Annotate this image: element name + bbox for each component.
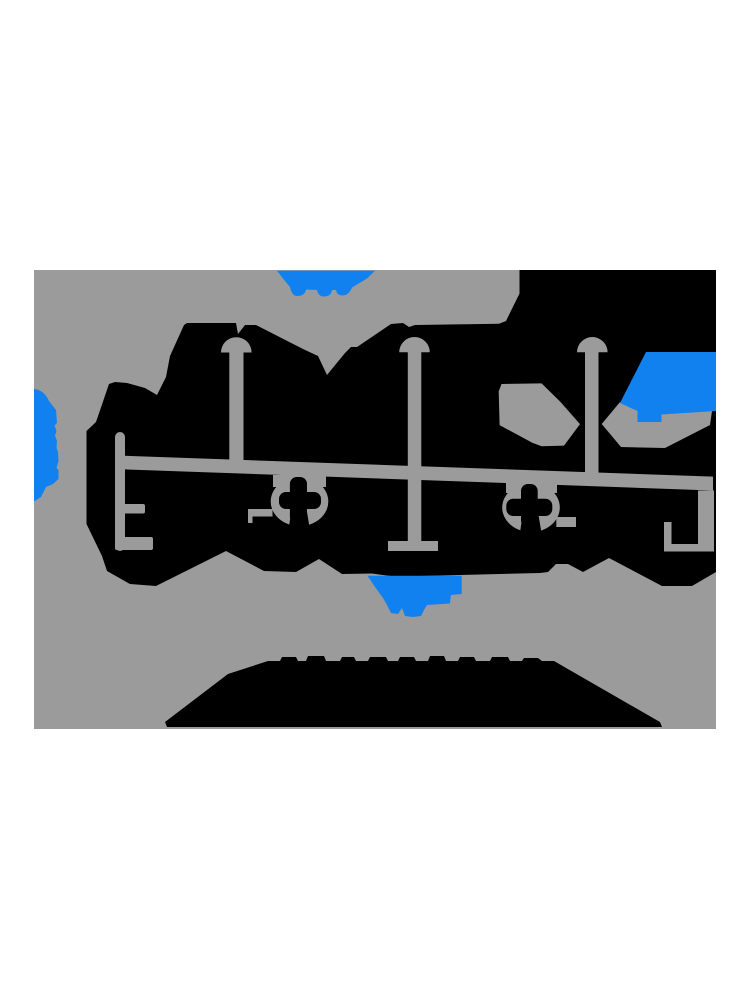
screw boss 2: black cruciform core (506, 499, 552, 516)
screw boss 1: left stub (248, 509, 273, 523)
blue dimension blob "3" left (34, 389, 59, 502)
left bar middle stub (122, 504, 145, 514)
screw boss 2: gray ring body (502, 483, 560, 532)
screw boss 1: gray ring body (271, 477, 329, 526)
mushroom pin 1 (cap + stem) (221, 337, 252, 461)
blue dimension blob "110" bottom (368, 576, 462, 617)
gray panel (34, 270, 716, 729)
screw boss 2: bottom opening (520, 512, 543, 540)
blue dimension blob right (620, 352, 716, 422)
screw boss 1: black cruciform core (279, 492, 321, 509)
mushroom pin 3 (cap + stem) (577, 337, 608, 474)
right end J-channel: inner stub (664, 522, 672, 545)
profile left vertical bar with rounded top (115, 432, 125, 551)
black silhouette blob of profile drawing (87, 270, 717, 586)
left bar bottom flange (115, 537, 153, 550)
profile web (main horizontal bar, sloped) (123, 456, 713, 491)
gray island: pentagon between stems 2 and 3 (499, 383, 580, 446)
screw boss 2: right stub (556, 517, 576, 527)
black text band (dilated caption text) (165, 656, 662, 727)
mushroom pin 2 (cap + stem through web with T-foot) (388, 337, 438, 551)
blue dimension blob "240" top (277, 271, 375, 297)
right end J-channel: outer wall (698, 491, 714, 552)
right end J-channel: bottom bar (664, 544, 714, 552)
screw boss 1: bottom opening (289, 506, 311, 534)
gray island: wedge right of stem 3 under blue (602, 402, 712, 448)
